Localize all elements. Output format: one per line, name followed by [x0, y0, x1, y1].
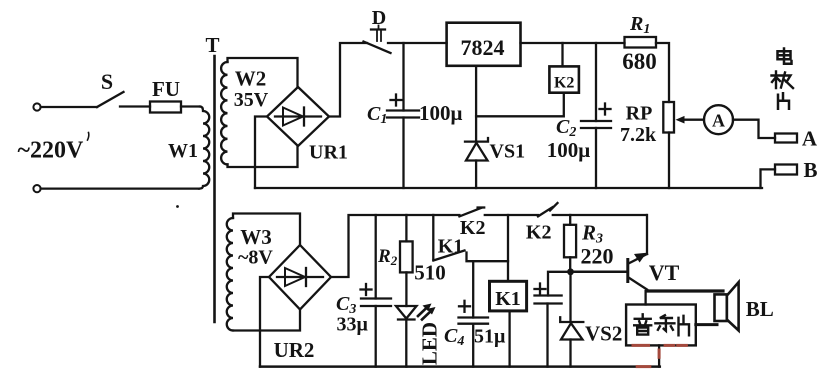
svg-text:680: 680 — [622, 49, 657, 74]
capacitor C1 — [387, 43, 419, 188]
wire K2 coil drop — [561, 43, 563, 66]
label 220 — [581, 244, 614, 269]
wire UR2 right vertex to top rail — [331, 215, 459, 277]
label K2 second — [526, 222, 552, 244]
svg-text:BL: BL — [746, 297, 774, 321]
svg-text:K2: K2 — [554, 75, 574, 92]
plus C1 — [391, 95, 402, 106]
winding W3 — [227, 214, 300, 331]
node input terminal bottom — [33, 185, 40, 192]
label K1 contact — [438, 236, 464, 258]
contact K2 second — [538, 203, 647, 216]
wire fuse to W1 — [181, 105, 200, 107]
label K1 coil — [495, 288, 521, 310]
label ji electrode — [772, 72, 794, 89]
label ~220V — [18, 138, 84, 164]
label UR2 — [274, 338, 315, 362]
label W1 — [168, 140, 198, 162]
label W2 — [235, 67, 267, 91]
bridge rectifier UR1 — [267, 87, 329, 146]
svg-text:W3: W3 — [240, 225, 272, 249]
wire switch to fuse — [120, 105, 150, 107]
label 7824 — [461, 35, 505, 60]
label R1 — [629, 13, 650, 37]
label B pad — [803, 158, 817, 182]
winding W2 — [221, 58, 297, 167]
wire top terminal to switch — [41, 106, 97, 108]
LED — [396, 306, 417, 367]
label R2 — [377, 246, 398, 268]
watermark red dashes — [633, 345, 686, 366]
potentiometer RP — [663, 102, 674, 188]
svg-text:K2: K2 — [460, 217, 486, 239]
svg-text:B: B — [803, 158, 817, 182]
wire K1 coil to rail — [508, 311, 510, 367]
resistor R2 — [400, 215, 413, 306]
stray mark apostrophe — [88, 133, 89, 141]
relay coil K2 — [549, 66, 579, 92]
zener VS2 — [560, 272, 583, 367]
svg-text:FU: FU — [152, 77, 180, 101]
label RP — [626, 103, 653, 125]
svg-text:W2: W2 — [235, 67, 267, 91]
contact K2 first — [459, 208, 538, 217]
svg-text:510: 510 — [414, 261, 446, 285]
svg-text:C1: C1 — [367, 103, 387, 127]
electrode pad A — [775, 134, 797, 143]
svg-text:VT: VT — [649, 260, 680, 285]
svg-text:~8V: ~8V — [238, 247, 273, 269]
wiper arrow — [676, 116, 704, 124]
wire K1 branch drop — [432, 215, 434, 260]
svg-text:C2: C2 — [556, 116, 576, 140]
wire bottom rail lower circuit — [260, 365, 660, 368]
svg-text:UR1: UR1 — [309, 142, 348, 164]
label UR1 — [309, 142, 348, 164]
electrode pad B — [775, 165, 797, 175]
wire emitter to speaker — [647, 289, 723, 292]
label 100u C2 — [547, 138, 591, 162]
bridge rectifier UR2 — [269, 245, 331, 309]
label yin music — [634, 314, 651, 334]
label C2 — [556, 116, 576, 140]
label 35V — [234, 89, 269, 111]
node junction dot — [567, 268, 574, 275]
svg-text:RP: RP — [626, 103, 653, 125]
label R3 — [581, 221, 603, 247]
transistor VT — [628, 215, 647, 290]
capacitor C5 — [535, 272, 571, 367]
label VS2 — [585, 322, 622, 346]
wire UR1 left vertex to bottom rail — [255, 117, 267, 189]
node input terminal top — [33, 103, 40, 110]
svg-text:7824: 7824 — [461, 35, 505, 60]
svg-text:100μ: 100μ — [547, 138, 591, 162]
svg-text:7.2k: 7.2k — [620, 124, 657, 146]
svg-text:T: T — [205, 33, 219, 57]
svg-text:C4: C4 — [444, 325, 464, 349]
music chip box — [626, 305, 696, 346]
winding W1 — [199, 107, 209, 189]
wire bottom rail to pad B — [761, 169, 776, 188]
svg-text:S: S — [101, 69, 113, 94]
pushbutton D — [364, 26, 391, 54]
label D — [372, 7, 386, 29]
wire UR1 right vertex up to D — [329, 43, 367, 117]
label pian music — [679, 316, 690, 336]
svg-text:33μ: 33μ — [337, 314, 369, 336]
plus C5 — [535, 284, 546, 295]
plus C3 — [361, 284, 372, 295]
svg-text:D: D — [372, 7, 386, 29]
svg-text:R1: R1 — [629, 13, 650, 37]
stray dot — [176, 205, 179, 208]
label K2 coil — [554, 75, 574, 92]
wire bottom rail top circuit — [255, 187, 762, 189]
svg-text:35V: 35V — [234, 89, 269, 111]
label T — [205, 33, 219, 57]
transformer core T — [213, 56, 216, 322]
svg-text:W1: W1 — [168, 140, 198, 162]
contact K1 — [433, 251, 508, 262]
wire base from dot — [571, 271, 627, 274]
label 100u C1 — [419, 101, 463, 125]
label FU — [152, 77, 180, 101]
capacitor C4 — [459, 261, 489, 366]
wire K2 coil to VS1 node — [476, 93, 564, 117]
capacitor C3 — [361, 215, 391, 367]
label C3 — [336, 293, 356, 317]
label C4 — [444, 325, 464, 349]
plus C2 — [600, 104, 611, 115]
switch S — [97, 92, 124, 107]
label C1 — [367, 103, 387, 127]
label 510 — [414, 261, 446, 285]
label S — [101, 69, 113, 94]
wire 7824 gnd down — [475, 66, 477, 140]
label 7.2k — [620, 124, 657, 146]
label K2 first — [460, 217, 486, 239]
wire emitter drop to music box — [644, 291, 646, 305]
svg-text:VS1: VS1 — [490, 141, 526, 163]
svg-text:~220V: ~220V — [18, 138, 84, 164]
label LED — [418, 322, 442, 365]
svg-text:UR2: UR2 — [274, 338, 315, 362]
label W3 — [240, 225, 272, 249]
wire K1 coil drop — [507, 215, 509, 281]
svg-text:R2: R2 — [377, 246, 398, 268]
wire UR2 left vertex to bottom rail — [260, 277, 269, 367]
svg-text:A: A — [802, 127, 818, 151]
resistor R1 — [625, 37, 657, 48]
svg-text:VS2: VS2 — [585, 322, 622, 346]
wire 7824 output rail — [521, 42, 625, 44]
label dian electrode — [778, 49, 792, 64]
label pian electrode — [778, 93, 789, 109]
label VS1 — [490, 141, 526, 163]
wire music box to speaker — [696, 323, 717, 326]
svg-text:51μ: 51μ — [474, 326, 506, 348]
label VT — [649, 260, 680, 285]
LED arrows — [418, 304, 436, 320]
plus C4 — [459, 301, 470, 312]
regulator 7824 — [447, 23, 521, 66]
relay coil K1 — [490, 281, 527, 311]
svg-text:220: 220 — [581, 244, 614, 269]
svg-text:K1: K1 — [495, 288, 521, 310]
label ~8V — [238, 247, 273, 269]
label BL — [746, 297, 774, 321]
zener VS1 — [465, 138, 488, 188]
svg-text:LED: LED — [418, 322, 442, 365]
label 680 — [622, 49, 657, 74]
capacitor C2 — [581, 43, 611, 188]
speaker BL — [715, 282, 739, 330]
ammeter A — [704, 105, 733, 134]
label 33u — [337, 314, 369, 336]
label A pad — [802, 127, 818, 151]
wire R1 to RP — [656, 43, 669, 102]
fuse FU — [150, 102, 181, 113]
label le music — [655, 315, 674, 331]
resistor R3 — [564, 215, 576, 272]
wire W1 bottom to bottom terminal — [41, 187, 199, 189]
wire music box bottom to rail — [658, 345, 660, 366]
svg-text:100μ: 100μ — [419, 101, 463, 125]
wire D to 7824 input — [388, 42, 447, 44]
svg-text:A: A — [712, 111, 725, 131]
label 51u — [474, 326, 506, 348]
wire ammeter to pad A — [733, 120, 775, 138]
label A meter — [712, 111, 725, 131]
svg-text:K2: K2 — [526, 222, 552, 244]
